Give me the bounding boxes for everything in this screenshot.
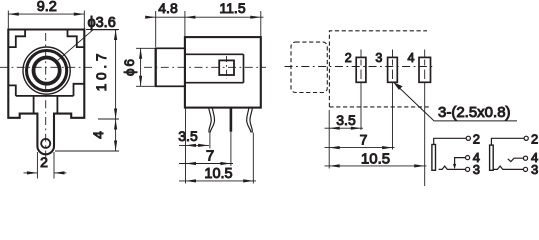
pad 3 [388, 57, 398, 82]
corner step top-left [8, 30, 25, 48]
terminal 2 circle B [524, 136, 528, 140]
horizontal centerline side view [144, 66, 266, 68]
dimension 3.5 (bottom view) [325, 127, 364, 129]
dashed body outline [329, 31, 427, 107]
terminal 2 circle A [466, 136, 470, 140]
pad 2 [356, 57, 366, 82]
svg-text:3: 3 [473, 162, 480, 177]
wire terminal 3 with contact bump A [439, 166, 466, 169]
svg-text:3-(2.5x0.8): 3-(2.5x0.8) [438, 104, 511, 121]
svg-text:7: 7 [360, 132, 368, 148]
svg-text:10.7: 10.7 [94, 50, 109, 91]
dimension 7 (bottom view) [325, 147, 395, 149]
vertical centerline front view [45, 33, 47, 158]
terminal 3 circle A [466, 167, 470, 171]
terminal 4 circle A [466, 156, 470, 160]
svg-text:4: 4 [90, 131, 106, 139]
horizontal centerline bottom view [285, 66, 433, 68]
dimension 10.5 (bottom view) [325, 165, 427, 167]
dimension 9.2 (top) [8, 11, 84, 29]
svg-text:2: 2 [473, 131, 480, 146]
outer thick ring [26, 51, 66, 91]
svg-text:3.5: 3.5 [336, 112, 356, 128]
svg-text:3: 3 [375, 51, 382, 65]
barrel (sleeve) [156, 48, 185, 86]
tab hole [41, 139, 50, 148]
wire to terminal 2 B [491, 138, 524, 145]
dimension phi6 (left of barrel) [136, 48, 155, 86]
terminal 4 circle B [523, 156, 527, 160]
pad 4 [419, 57, 431, 82]
svg-text:3.5: 3.5 [178, 128, 198, 144]
side view body [185, 37, 261, 108]
pin extension lines [186, 108, 254, 184]
bar (plug sleeve) B [490, 145, 494, 170]
wire terminal 4 open contact B [508, 158, 524, 161]
svg-text:10.5: 10.5 [204, 166, 232, 182]
wire terminal 4 with contact arrow A [455, 158, 466, 165]
bottom molding line [16, 95, 74, 97]
wire terminal 3 with contact bump B [493, 166, 523, 169]
svg-text:4: 4 [408, 51, 415, 65]
barrel front edge thick [155, 48, 157, 86]
wire to terminal 2 A [434, 138, 467, 144]
dimension 4.8 / 11.5 (top of side view) [146, 11, 264, 47]
svg-text:2: 2 [345, 51, 352, 65]
contact arrowhead A [453, 164, 456, 169]
callout 3-(2.5x0.8) [396, 85, 517, 121]
dashed barrel outline [291, 42, 327, 92]
svg-text:11.5: 11.5 [219, 0, 245, 16]
svg-text:9.2: 9.2 [37, 0, 57, 15]
dimension 10.7 (right side) [86, 30, 119, 120]
bottom molding vertical right [56, 96, 58, 114]
vertical centerline through square [226, 56, 228, 79]
dimension 2 (bottom tab) [24, 152, 67, 179]
dimension 10.5 (side view) [179, 180, 256, 182]
pin 1 (bent leg left) [209, 108, 212, 133]
bottom-right step [74, 84, 85, 96]
pad centerlines vertical [361, 50, 425, 89]
svg-text:4.8: 4.8 [158, 0, 178, 16]
terminal 3 circle B [523, 167, 527, 171]
svg-text:3: 3 [531, 162, 538, 177]
outer thin circle [23, 47, 70, 94]
pad extension lines [329, 88, 425, 186]
corner step top-right [68, 30, 85, 48]
dimension 7 (side view) [179, 163, 233, 165]
cavity lines [185, 54, 244, 82]
svg-text:2: 2 [531, 131, 538, 146]
svg-text:ϕ3.6: ϕ3.6 [88, 15, 116, 31]
bottom-left step [8, 85, 16, 96]
pin 2 (middle straight) [230, 108, 233, 132]
front view body outline with bottom tab [8, 30, 84, 155]
svg-text:ϕ6: ϕ6 [122, 57, 137, 76]
bottom molding vertical left [33, 96, 35, 114]
dimension 4 (right side lower) [55, 119, 119, 151]
small square (switch window) [219, 60, 234, 75]
inner thick ring (jack hole) [34, 58, 60, 84]
dimension 3.5 (side view) [179, 144, 209, 146]
svg-text:7: 7 [206, 148, 214, 165]
svg-text:10.5: 10.5 [361, 151, 390, 168]
svg-text:2: 2 [40, 154, 48, 170]
bar (plug sleeve) A [432, 145, 436, 171]
pin 3 (bent leg right) [250, 108, 253, 133]
horizontal centerline front view [0, 66, 92, 68]
dimension phi3.6 leader [58, 30, 118, 61]
